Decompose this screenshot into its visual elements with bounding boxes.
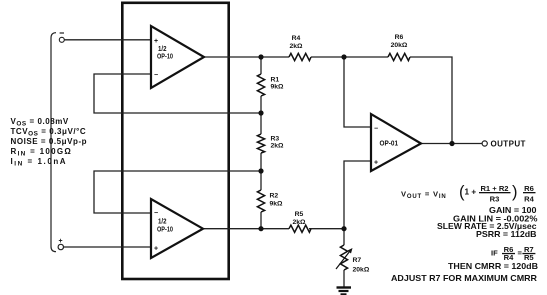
svg-text:+: + [154,246,158,253]
svg-text:1 +: 1 + [465,187,477,196]
svg-text:+: + [374,160,378,167]
svg-text:R6: R6 [524,184,534,193]
svg-text:OP-01: OP-01 [380,141,399,148]
svg-text:1/2: 1/2 [158,219,167,226]
svg-text:−: − [154,210,158,217]
svg-text:2kΩ: 2kΩ [289,43,303,50]
svg-text:): ) [512,183,518,201]
svg-text:+: + [154,38,158,45]
svg-text:R5: R5 [524,253,534,262]
svg-text:+: + [59,238,63,245]
svg-text:R4: R4 [524,195,534,204]
svg-text:R6: R6 [395,34,404,41]
svg-text:R2: R2 [270,193,279,200]
svg-text:ADJUST R7 FOR MAXIMUM CMRR: ADJUST R7 FOR MAXIMUM CMRR [391,273,537,283]
svg-text:R1: R1 [271,77,280,84]
svg-text:20kΩ: 20kΩ [391,42,408,49]
svg-text:NOISE = 0.5μVp-p: NOISE = 0.5μVp-p [11,137,88,146]
svg-text:OP-10: OP-10 [157,227,173,234]
svg-text:R4: R4 [292,35,301,42]
svg-text:1/2: 1/2 [158,46,167,53]
svg-text:20kΩ: 20kΩ [353,267,370,274]
svg-text:2kΩ: 2kΩ [271,143,285,150]
svg-text:R4: R4 [504,253,514,262]
svg-text:R3: R3 [490,195,500,204]
svg-text:=: = [518,248,523,257]
svg-text:R5: R5 [295,211,304,218]
svg-text:−: − [374,126,378,133]
svg-text:THEN CMRR = 120dB: THEN CMRR = 120dB [448,261,538,271]
svg-text:OUTPUT: OUTPUT [491,140,526,149]
svg-text:R1 + R2: R1 + R2 [480,184,508,193]
svg-text:PSRR = 112dB: PSRR = 112dB [476,229,537,239]
svg-text:R7: R7 [353,257,362,264]
svg-text:IF: IF [491,249,498,258]
svg-text:9kΩ: 9kΩ [271,84,285,91]
svg-text:OP-10: OP-10 [157,54,173,61]
svg-text:R3: R3 [271,136,280,143]
svg-text:9kΩ: 9kΩ [270,201,284,208]
svg-text:2kΩ: 2kΩ [292,219,306,226]
svg-text:−: − [154,72,158,79]
